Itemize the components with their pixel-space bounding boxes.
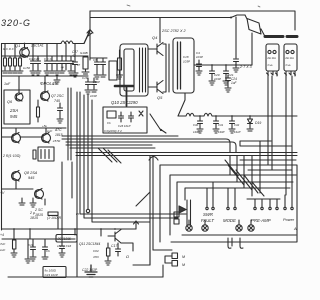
svg-text:745: 745 <box>54 99 60 103</box>
transformer T1 core bars <box>140 48 146 92</box>
node dots output <box>211 64 213 66</box>
wire top bus upper <box>90 11 295 30</box>
wire left vbus 3 <box>84 95 178 218</box>
relay box RL2 <box>284 44 297 76</box>
input transformer small box <box>109 61 117 80</box>
svg-text:ATC: ATC <box>54 128 62 132</box>
svg-text:Q6: Q6 <box>7 100 13 104</box>
svg-text:101P: 101P <box>90 94 97 98</box>
svg-text:140P: 140P <box>193 130 200 134</box>
relay K1 changeover contact <box>231 15 265 37</box>
antenna bar thick 1 <box>265 35 283 38</box>
lamp DS1 <box>186 220 192 231</box>
ground <box>233 68 239 72</box>
wire left vbus 5 <box>92 100 150 222</box>
svg-text:PRE-AMP: PRE-AMP <box>251 218 271 223</box>
svg-text:1Amp C16: 1Amp C16 <box>57 244 72 248</box>
wire diagonals merge <box>98 148 121 163</box>
svg-text:Cb: Cb <box>46 249 50 253</box>
wire left vbus 2 <box>80 92 186 214</box>
capacitor C21 <box>223 65 229 85</box>
arrow end rail <box>134 221 139 229</box>
svg-text:2SC1A1: 2SC1A1 <box>30 44 44 48</box>
capacitor C30 <box>30 56 36 75</box>
wire mid bus 5 <box>70 147 155 149</box>
svg-text:M: M <box>182 255 185 259</box>
triangle indicator <box>179 206 186 213</box>
scan speck top center <box>127 5 260 7</box>
wire elbow feeds <box>240 141 292 146</box>
wire coupling verticals <box>163 44 169 92</box>
wire bases <box>2 128 47 137</box>
capacitor C45 <box>64 56 69 70</box>
svg-text:47Ω: 47Ω <box>93 255 99 259</box>
wire left border <box>1 44 3 231</box>
power block Q10 <box>103 107 147 133</box>
transformer T2 outer <box>173 38 194 93</box>
svg-text:7uF: 7uF <box>0 242 5 246</box>
svg-text:C32: C32 <box>234 123 240 127</box>
switch S2 slant <box>150 114 166 133</box>
svg-text:+5u: +5u <box>42 124 47 128</box>
svg-text:141P: 141P <box>234 130 241 134</box>
svg-text:m: m <box>76 212 79 216</box>
svg-text:103P: 103P <box>183 60 190 64</box>
ground 2 <box>19 198 25 205</box>
node dot rail <box>24 43 26 45</box>
resistor R22 <box>107 248 110 256</box>
svg-text:2SC1815: 2SC1815 <box>57 237 72 241</box>
svg-text:9u 100Ω: 9u 100Ω <box>45 269 57 273</box>
svg-text:C30: C30 <box>193 123 199 127</box>
transistor Q1 <box>15 43 44 57</box>
wire bottom rail 277 <box>8 276 163 278</box>
svg-text:C26 101P: C26 101P <box>118 124 131 128</box>
svg-text:1uF: 1uF <box>47 129 52 133</box>
capacitor C43 <box>54 56 60 75</box>
svg-text:C17: C17 <box>111 244 117 248</box>
capacitor C8 <box>94 58 100 79</box>
switch MODE <box>228 188 235 207</box>
svg-text:140P: 140P <box>218 130 225 134</box>
box Q6 stage <box>4 90 30 124</box>
svg-text:2SC 2782 X 2: 2SC 2782 X 2 <box>161 29 187 33</box>
antenna bar thick 2 <box>287 35 297 38</box>
capacitor C9 <box>100 58 106 77</box>
wire stage down <box>45 162 72 229</box>
svg-text:D19: D19 <box>255 121 261 125</box>
thick feed bar L <box>115 85 133 88</box>
svg-text:1815: 1815 <box>30 216 38 220</box>
capacitor C24 with ground <box>225 75 231 92</box>
panel outer box <box>160 165 297 242</box>
svg-text:101P: 101P <box>214 77 221 81</box>
svg-text:1815: 1815 <box>55 133 63 137</box>
transistor Q5 <box>148 81 163 94</box>
svg-text:1u/50: 1u/50 <box>23 66 30 70</box>
svg-text:+V: +V <box>0 191 5 195</box>
capacitor C30f <box>197 116 203 133</box>
wire left vbus 4 <box>87 95 89 209</box>
ground Q9b <box>30 198 36 207</box>
wire rail connectors <box>5 44 75 63</box>
svg-text:C3(2290) X 2: C3(2290) X 2 <box>104 129 122 133</box>
svg-text:C C C: C C C <box>44 57 53 61</box>
wire double vertical <box>68 88 71 160</box>
svg-text:C3 C40: C3 C40 <box>29 57 40 61</box>
lamp DS3 <box>236 220 242 231</box>
svg-text:2 μ: 2 μ <box>29 211 35 215</box>
wire mid bus 4 <box>66 144 152 146</box>
wire relay to output <box>251 33 253 65</box>
svg-text:Power: Power <box>283 217 295 222</box>
node junction <box>230 17 232 19</box>
thick feed vertical <box>126 87 128 106</box>
wire long bus B <box>76 155 297 157</box>
transistor Q9 <box>42 134 51 143</box>
wire relay outputs down right side <box>268 76 292 199</box>
transistor Q4 <box>148 18 163 56</box>
transformer T1 outer <box>120 44 148 96</box>
wire ground rail <box>2 75 89 77</box>
wire collector Q11 <box>121 243 133 251</box>
transistor Q6 <box>15 93 23 101</box>
wire output line <box>194 64 252 66</box>
wire long bus A <box>76 152 297 154</box>
svg-text:(1·10Ω)R: (1·10Ω)R <box>47 216 62 220</box>
wire rail 239 <box>2 238 75 240</box>
relay box RL1 <box>266 44 279 76</box>
wire panel diagonals <box>225 160 264 196</box>
wire block to filter diagonal <box>178 93 185 116</box>
node dots rail229 <box>13 228 15 230</box>
transistor Q8 <box>12 134 21 143</box>
svg-text:1uF: 1uF <box>4 82 11 86</box>
ground under POL <box>54 76 60 84</box>
wire mid bus 1 <box>62 135 178 137</box>
label box 2SC1815 <box>56 235 77 243</box>
resistor R20 <box>13 240 16 249</box>
resistor box right <box>83 57 88 69</box>
svg-text:1uF: 1uF <box>0 248 5 252</box>
svg-text:Q5: Q5 <box>157 95 163 100</box>
capacitor C31 <box>213 116 219 133</box>
ground left2 <box>25 239 31 263</box>
diode D19 <box>247 116 253 131</box>
capacitor C44 <box>59 56 65 73</box>
capacitor C16 <box>85 78 91 94</box>
svg-text:Q8 2SA: Q8 2SA <box>24 171 38 175</box>
wire misc drops <box>30 229 101 239</box>
ground bold <box>85 265 97 277</box>
panel box L2 <box>170 175 296 235</box>
connector rects <box>174 212 179 217</box>
wire bus left connector <box>89 11 91 30</box>
node arrow at x90 <box>84 30 93 44</box>
svg-text:1uF: 1uF <box>231 81 238 85</box>
wire driver input stub <box>90 57 107 59</box>
svg-text:Cb: Cb <box>107 121 111 125</box>
svg-text:945: 945 <box>10 114 18 119</box>
svg-text:Ω: Ω <box>126 254 129 259</box>
capacitor C41 <box>44 56 50 75</box>
svg-text:101P: 101P <box>196 55 203 59</box>
wire output filter rail <box>178 113 297 116</box>
resistor R7 <box>118 58 122 70</box>
resistor horizontal <box>48 212 58 215</box>
connector M squares <box>172 253 178 259</box>
wire rail 128 <box>2 127 67 129</box>
svg-text:C04: C04 <box>93 249 99 253</box>
wire mid bus 3 <box>66 142 236 153</box>
svg-text:G10B: G10B <box>80 51 88 55</box>
capacitor C17a <box>91 78 97 92</box>
wire feed to driver <box>88 33 92 60</box>
transistor Q8b <box>12 172 21 181</box>
svg-text:C16: C16 <box>82 76 88 80</box>
wire top bus lower <box>90 17 231 19</box>
svg-text:C+L: C+L <box>268 63 274 67</box>
capacitor C40 <box>35 56 41 75</box>
wire bottom rail 229 <box>2 228 136 230</box>
svg-text:Q4: Q4 <box>152 35 158 40</box>
capacitor C18b <box>116 243 121 256</box>
capacitor C32 <box>229 116 235 133</box>
wire base Q8b <box>2 181 34 189</box>
svg-text:C10: C10 <box>28 243 34 247</box>
svg-text:Do Do: Do Do <box>268 56 277 60</box>
svg-text:Q7 2SC: Q7 2SC <box>51 94 64 98</box>
svg-text:2·7 X 3: 2·7 X 3 <box>239 65 252 69</box>
resistor pair top <box>33 150 36 159</box>
wire drop to bottom stage <box>136 192 150 206</box>
svg-text:320-G: 320-G <box>1 18 31 28</box>
svg-text:R·C R·C: R·C R·C <box>3 47 15 51</box>
wire panel feed lines <box>240 160 296 170</box>
svg-text:2 R(1·10Ω): 2 R(1·10Ω) <box>2 154 20 158</box>
svg-text:C+L: C+L <box>286 63 292 67</box>
wire second rail <box>2 55 89 57</box>
switch PREAMP <box>255 199 277 207</box>
capacitor C12 <box>42 239 48 259</box>
capacitor C14 <box>57 103 63 123</box>
svg-text:C21: C21 <box>228 73 234 77</box>
capacitor C10 <box>30 239 36 261</box>
capacitor C48 <box>72 62 78 77</box>
wire pins M <box>165 256 172 263</box>
capacitor C20 <box>209 65 215 85</box>
transformer T2 core bars <box>178 42 181 89</box>
wire hop arc <box>149 157 158 161</box>
wire bottom corner <box>150 265 163 277</box>
capacitor C13 <box>59 239 65 257</box>
wire M connector feed <box>133 250 172 265</box>
svg-text:C8: C8 <box>93 58 97 62</box>
switch SWR <box>207 182 213 207</box>
ground <box>2 66 23 73</box>
transistor Q9b <box>35 190 44 199</box>
wire panel left verticals <box>150 156 153 266</box>
wire mid bus 2 <box>62 139 230 153</box>
transistor Q7 <box>41 92 50 101</box>
svg-text:Do Do: Do Do <box>286 56 295 60</box>
wire left top rail with inductor bumps <box>2 31 91 44</box>
resistor cluster box <box>38 147 54 161</box>
switch PREAMP bar <box>247 198 280 200</box>
power block inner <box>107 111 116 118</box>
svg-text:Q1: Q1 <box>15 43 20 48</box>
wire left vbus 1 <box>76 92 78 277</box>
svg-text:47: 47 <box>77 63 81 67</box>
capacitor C27 <box>234 59 239 67</box>
svg-text:·157Ω: ·157Ω <box>52 139 61 143</box>
capacitor C42 <box>49 56 55 73</box>
svg-text:SWR: SWR <box>203 212 213 217</box>
transformer T1 inner winding <box>124 49 134 91</box>
panel box L4 <box>185 188 290 200</box>
capacitor C19 <box>196 60 202 75</box>
resistor pair vertical <box>187 200 191 225</box>
svg-text:2SA: 2SA <box>9 108 18 113</box>
svg-text:FAULT: FAULT <box>201 218 214 223</box>
wire antenna coupling <box>235 17 237 58</box>
svg-text:A: A <box>293 226 297 231</box>
svg-text:2 SC: 2 SC <box>34 208 43 212</box>
boxed label R100 C101 <box>43 267 66 278</box>
resistor bank R1-R4 <box>5 56 20 58</box>
lamp DS2 <box>202 220 208 231</box>
lamp DS4 <box>248 220 254 231</box>
svg-text:Q11 2SC1844: Q11 2SC1844 <box>79 242 100 246</box>
resistor R9 <box>37 107 40 117</box>
svg-text:MODE: MODE <box>223 218 236 223</box>
svg-text:Q10 2SC2290: Q10 2SC2290 <box>111 100 138 105</box>
panel box L3 <box>177 182 293 218</box>
wire panel verticals <box>230 141 260 196</box>
capacitor C46 <box>68 56 74 75</box>
svg-text:+4: +4 <box>0 233 4 237</box>
node circle M <box>86 209 89 212</box>
svg-text:C31: C31 <box>218 123 224 127</box>
svg-text:945: 945 <box>28 176 35 180</box>
switch POWER <box>285 195 292 207</box>
svg-text:C18: C18 <box>183 55 189 59</box>
svg-text:M: M <box>182 263 185 267</box>
switch bracket 1 <box>228 238 232 248</box>
svg-text:·1μ: ·1μ <box>60 65 64 69</box>
node dots filter <box>199 115 201 117</box>
transistor Q11 <box>108 230 121 244</box>
switch bracket 2 <box>240 238 243 248</box>
wire box feeds <box>19 76 45 93</box>
svg-text:C23 101P: C23 101P <box>45 273 58 277</box>
